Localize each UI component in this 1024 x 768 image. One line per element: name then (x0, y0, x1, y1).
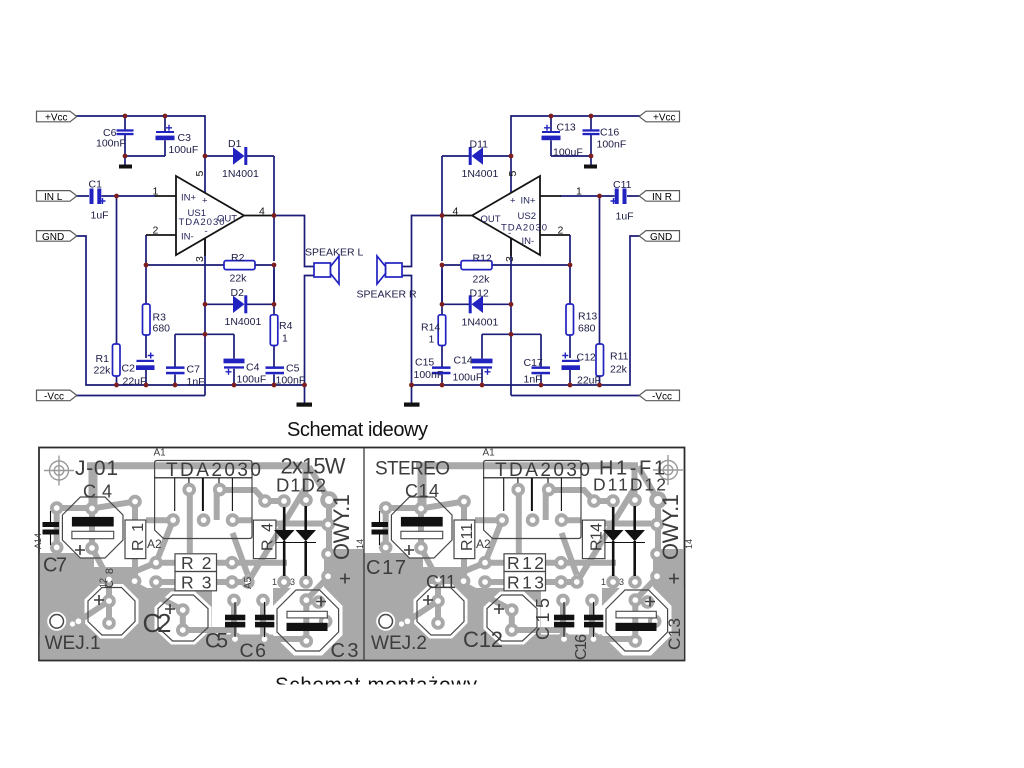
svg-text:C16: C16 (573, 634, 590, 660)
svg-text:22k: 22k (94, 365, 112, 377)
svg-text:IN L: IN L (44, 192, 63, 203)
svg-text:TDA2030: TDA2030 (166, 460, 261, 481)
svg-text:C4: C4 (246, 362, 260, 374)
svg-text:C3: C3 (331, 640, 359, 662)
svg-text:Schemat ideowy: Schemat ideowy (287, 419, 428, 441)
svg-text:STEREO: STEREO (375, 459, 450, 480)
svg-text:D12: D12 (470, 288, 489, 300)
svg-text:D1D2: D1D2 (276, 475, 326, 496)
svg-text:C2: C2 (143, 608, 172, 638)
svg-text:C14: C14 (405, 481, 439, 501)
svg-text:A14: A14 (33, 533, 43, 549)
svg-text:C17: C17 (366, 557, 406, 579)
svg-text:C11: C11 (426, 572, 456, 592)
svg-text:+Vcc: +Vcc (45, 113, 68, 124)
svg-text:WEJ.2: WEJ.2 (371, 633, 427, 654)
svg-text:1: 1 (153, 186, 159, 198)
svg-text:C3: C3 (178, 132, 192, 144)
svg-text:5: 5 (194, 171, 206, 177)
svg-text:R11: R11 (459, 523, 476, 551)
svg-text:680: 680 (153, 323, 171, 335)
svg-text:C16: C16 (600, 127, 619, 139)
svg-text:100nF: 100nF (96, 138, 126, 150)
svg-text:C2: C2 (122, 363, 136, 375)
svg-text:R11: R11 (610, 351, 629, 363)
svg-text:2: 2 (558, 225, 564, 237)
svg-text:C15: C15 (533, 598, 553, 640)
svg-text:1N4001: 1N4001 (222, 168, 259, 180)
svg-text:-: - (508, 228, 511, 239)
svg-text:1uF: 1uF (616, 211, 634, 223)
svg-text:WEJ.1: WEJ.1 (45, 633, 101, 654)
svg-text:R12: R12 (507, 553, 544, 573)
svg-text:1nF: 1nF (187, 376, 205, 388)
svg-text:1N4001: 1N4001 (462, 317, 499, 329)
svg-text:100nF: 100nF (276, 375, 306, 387)
svg-text:C7: C7 (43, 555, 67, 577)
svg-text:2: 2 (153, 225, 159, 237)
svg-text:D11: D11 (470, 139, 489, 151)
svg-text:OWY.1: OWY.1 (658, 494, 683, 560)
svg-text:R1: R1 (96, 353, 110, 365)
svg-text:3: 3 (194, 256, 206, 262)
svg-text:A5: A5 (243, 576, 254, 589)
svg-text:OUT: OUT (217, 214, 237, 225)
svg-text:100nF: 100nF (414, 369, 444, 381)
svg-text:22uF: 22uF (577, 375, 601, 387)
svg-text:R13: R13 (507, 573, 544, 593)
svg-text:A1: A1 (483, 448, 496, 459)
svg-text:1: 1 (272, 577, 277, 587)
svg-text:100uF: 100uF (453, 372, 483, 384)
svg-text:IN-: IN- (522, 236, 535, 247)
svg-text:1uF: 1uF (91, 210, 109, 222)
svg-text:R2: R2 (231, 252, 245, 264)
svg-text:100uF: 100uF (169, 144, 199, 156)
svg-text:22k: 22k (473, 274, 491, 286)
svg-text:C13: C13 (665, 618, 684, 650)
svg-text:IN-: IN- (181, 232, 194, 243)
svg-text:IN R: IN R (652, 192, 672, 203)
svg-text:22uF: 22uF (123, 376, 147, 388)
svg-text:SPEAKER R: SPEAKER R (357, 289, 418, 301)
svg-text:C5: C5 (286, 363, 300, 375)
svg-text:GND: GND (650, 232, 672, 243)
svg-text:14: 14 (355, 539, 365, 549)
svg-text:+: + (202, 196, 208, 207)
svg-text:1N4001: 1N4001 (225, 316, 262, 328)
svg-text:C7: C7 (187, 364, 201, 376)
svg-text:R13: R13 (578, 311, 597, 323)
svg-text:100uF: 100uF (553, 147, 583, 159)
svg-text:SPEAKER L: SPEAKER L (305, 247, 364, 259)
svg-text:A2: A2 (147, 537, 162, 551)
svg-text:1N4001: 1N4001 (462, 168, 499, 180)
svg-text:100nF: 100nF (597, 139, 627, 151)
svg-text:D1: D1 (228, 138, 242, 150)
svg-text:C12: C12 (463, 627, 503, 652)
svg-text:5: 5 (507, 171, 519, 177)
svg-text:1: 1 (601, 577, 606, 587)
svg-text:C14: C14 (454, 355, 473, 367)
svg-text:-Vcc: -Vcc (652, 392, 672, 403)
svg-text:US2: US2 (518, 211, 536, 222)
svg-text:J-01: J-01 (75, 457, 118, 480)
svg-text:C12: C12 (577, 352, 596, 364)
svg-text:IN+: IN+ (521, 196, 537, 207)
svg-text:4: 4 (453, 206, 459, 218)
svg-text:+Vcc: +Vcc (653, 113, 676, 124)
svg-text:12: 12 (98, 578, 108, 588)
svg-text:R12: R12 (473, 253, 492, 265)
svg-text:TDA2030: TDA2030 (495, 460, 590, 481)
svg-text:1nF: 1nF (524, 374, 542, 386)
svg-text:C11: C11 (613, 179, 632, 191)
svg-text:3: 3 (290, 577, 295, 587)
svg-text:22k: 22k (610, 364, 628, 376)
svg-text:A1: A1 (154, 448, 167, 459)
svg-text:-Vcc: -Vcc (44, 392, 64, 403)
svg-text:R4: R4 (279, 320, 293, 332)
svg-text:-: - (205, 226, 208, 237)
svg-text:C1: C1 (89, 179, 103, 191)
svg-text:1: 1 (576, 186, 582, 198)
svg-text:D2: D2 (231, 287, 245, 299)
svg-text:OWY.1: OWY.1 (329, 494, 354, 560)
svg-text:IN+: IN+ (181, 193, 197, 204)
svg-text:C6: C6 (240, 640, 267, 662)
svg-text:C17: C17 (524, 357, 543, 369)
svg-text:GND: GND (42, 232, 64, 243)
svg-text:680: 680 (578, 323, 596, 335)
svg-text:C15: C15 (415, 357, 434, 369)
svg-text:14: 14 (684, 539, 694, 549)
svg-text:R14: R14 (421, 322, 440, 334)
svg-text:R14: R14 (589, 523, 606, 551)
svg-text:OUT: OUT (481, 214, 501, 225)
svg-text:100uF: 100uF (237, 374, 267, 386)
svg-text:C13: C13 (557, 122, 576, 134)
svg-text:A2: A2 (476, 537, 491, 551)
svg-text:4: 4 (259, 206, 265, 218)
svg-text:22k: 22k (230, 273, 248, 285)
svg-text:1: 1 (282, 333, 288, 345)
svg-text:C5: C5 (205, 630, 228, 653)
svg-text:+: + (510, 196, 516, 207)
svg-text:3: 3 (619, 577, 624, 587)
svg-text:1: 1 (429, 334, 435, 346)
svg-text:3: 3 (504, 256, 516, 262)
